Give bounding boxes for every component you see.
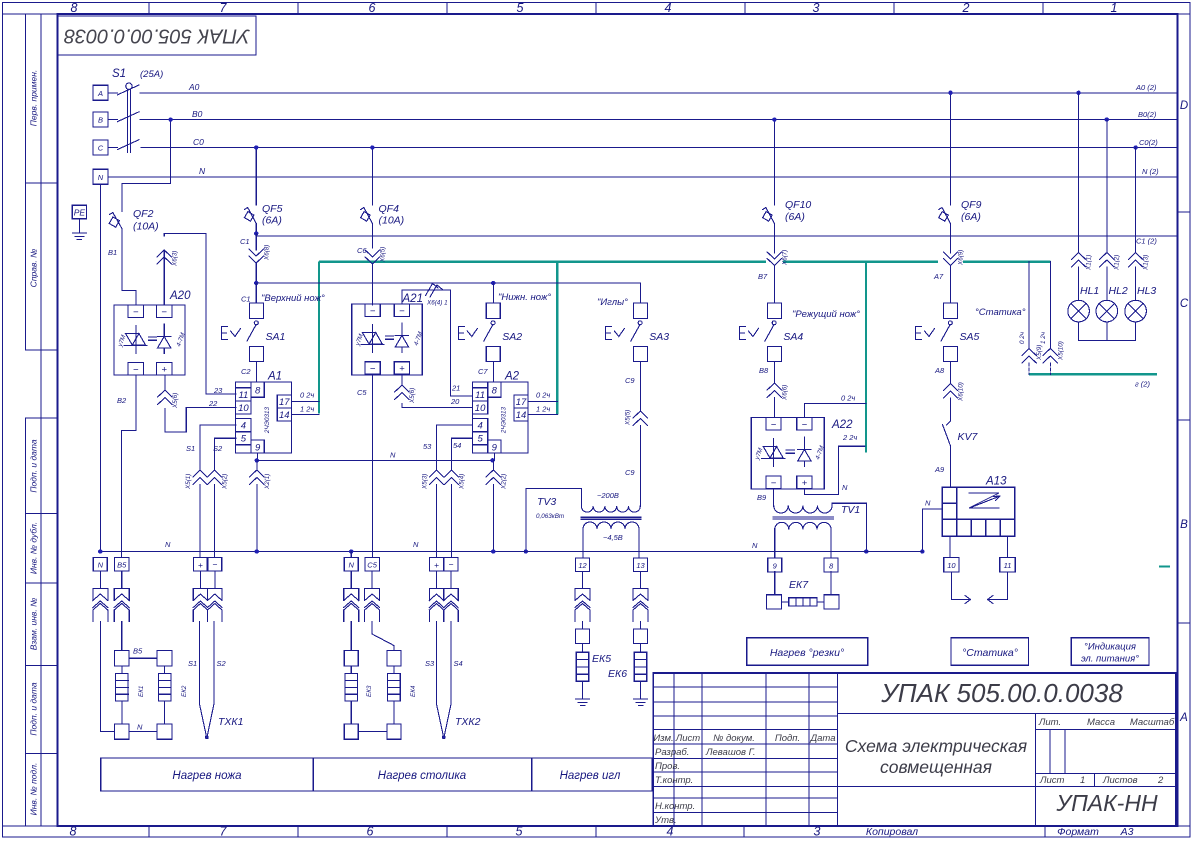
svg-text:Разраб.: Разраб. — [655, 747, 689, 758]
svg-text:А0: А0 — [188, 82, 200, 92]
node C1 junction — [254, 231, 258, 235]
svg-text:№ докум.: № докум. — [713, 733, 755, 744]
svg-text:В0: В0 — [192, 109, 203, 119]
svg-text:совмещенная: совмещенная — [880, 757, 992, 777]
svg-text:Взам. инв. №: Взам. инв. № — [29, 598, 39, 651]
svg-text:Т.контр.: Т.контр. — [655, 775, 693, 786]
svg-text:Х6(9): Х6(9) — [958, 250, 965, 266]
svg-text:+: + — [802, 478, 808, 489]
svg-text:Изм.: Изм. — [653, 733, 673, 744]
wire A1 pin14 to teal — [291, 414, 319, 416]
box minus TXK2 — [444, 558, 458, 572]
connector X5(2) — [207, 470, 221, 558]
svg-text:УПАК 505.00.0.0038: УПАК 505.00.0.0038 — [880, 678, 1123, 708]
wire A13 to box 10 — [949, 536, 951, 557]
lamp HL3 — [1125, 300, 1147, 340]
svg-text:Лист: Лист — [675, 733, 701, 744]
svg-text:С9: С9 — [625, 376, 635, 385]
svg-text:A: A — [1179, 712, 1188, 724]
svg-text:1 2ч: 1 2ч — [300, 405, 314, 414]
svg-text:QF5: QF5 — [262, 203, 283, 215]
svg-text:Х5(6): Х5(6) — [172, 393, 179, 409]
wire 22ч A22 plus to teal — [804, 446, 865, 494]
svg-text:РЕ: РЕ — [74, 207, 86, 217]
svg-text:17: 17 — [516, 397, 527, 408]
wire N terminal to bottom rail — [99, 184, 101, 551]
connector X6(10) — [943, 384, 957, 422]
connector X5(5) — [633, 411, 647, 506]
svg-text:В0(2): В0(2) — [1138, 110, 1157, 119]
svg-text:−: − — [771, 478, 777, 489]
svg-text:А7: А7 — [933, 272, 944, 281]
teal drop Режущий нож — [865, 262, 867, 453]
wire 02ч A22 to teal — [804, 404, 866, 418]
top ruler ticks — [149, 3, 1043, 15]
teal drop Нижн нож — [556, 262, 558, 415]
svg-text:Копировал: Копировал — [866, 826, 918, 838]
bottom column numbers — [70, 825, 821, 839]
svg-text:4: 4 — [241, 421, 246, 432]
svg-text:Утв.: Утв. — [654, 815, 677, 826]
N rail — [100, 551, 922, 553]
teal drop Верхний нож — [318, 262, 320, 414]
probe arrows under A13 — [951, 572, 1007, 604]
svg-text:3: 3 — [813, 1, 820, 15]
svg-text:ТХК2: ТХК2 — [455, 716, 481, 728]
svg-text:Инв. № дубл.: Инв. № дубл. — [29, 522, 39, 574]
wire B9 A22 to TV1 — [773, 489, 775, 506]
wire A1 pin9 to N link — [257, 453, 259, 460]
svg-text:А: А — [97, 89, 103, 98]
box minus TXK1 — [208, 558, 222, 572]
wire A13 to box 11 — [1006, 536, 1008, 557]
lamp drop HL3 — [1135, 148, 1137, 254]
left stamp rotated labels — [29, 70, 39, 816]
svg-text:−: − — [133, 307, 139, 318]
svg-text:Перв. примен.: Перв. примен. — [29, 70, 39, 127]
svg-text:11: 11 — [238, 390, 248, 401]
svg-text:эл. питания°: эл. питания° — [1081, 654, 1139, 665]
svg-text:С5: С5 — [367, 561, 377, 570]
svg-text:А1: А1 — [267, 371, 282, 383]
svg-text:Х5(10): Х5(10) — [1057, 341, 1064, 361]
connector X2(1) — [250, 460, 264, 551]
svg-text:1: 1 — [1080, 775, 1085, 786]
svg-text:5: 5 — [241, 434, 247, 445]
svg-text:УПАК-НН: УПАК-НН — [1055, 790, 1158, 816]
connector S4 column — [450, 571, 452, 589]
caption box: Нагрев игл — [532, 758, 652, 791]
box С5 — [365, 558, 380, 572]
svg-text:С0: С0 — [193, 137, 204, 147]
svg-text:4: 4 — [477, 421, 482, 432]
wire B0 to QF2 — [122, 120, 171, 212]
svg-text:−: − — [212, 560, 217, 570]
svg-text:В8: В8 — [759, 366, 769, 375]
wire 23 bridge A20 to A1 pin11 — [164, 233, 236, 394]
svg-text:(10А): (10А) — [133, 221, 159, 233]
svg-text:~200В: ~200В — [597, 491, 619, 500]
terminal box A — [93, 85, 108, 100]
svg-text:С9: С9 — [625, 468, 635, 477]
svg-text:Масштаб: Масштаб — [1130, 717, 1175, 728]
svg-text:Формат: Формат — [1057, 826, 1099, 838]
svg-text:5: 5 — [517, 1, 524, 15]
connector S2 column — [214, 571, 216, 589]
svg-text:N: N — [199, 166, 206, 176]
svg-text:QF9: QF9 — [961, 199, 982, 211]
breaker QF9 — [939, 208, 951, 254]
wire A21 plus to A2 pin10 — [402, 374, 473, 407]
svg-text:В5: В5 — [133, 647, 143, 656]
svg-text:Нагрев столика: Нагрев столика — [378, 770, 466, 782]
svg-text:22: 22 — [208, 399, 218, 408]
svg-text:S2: S2 — [217, 659, 227, 668]
top-left inverted stamp box — [58, 16, 256, 55]
svg-text:С7: С7 — [478, 367, 488, 376]
svg-text:0 2ч: 0 2ч — [841, 394, 855, 403]
svg-text:°Статика°: °Статика° — [962, 647, 1018, 659]
thyristor module A22 — [751, 418, 824, 489]
left stamp bands — [26, 14, 58, 826]
teal main horizontal — [319, 261, 766, 263]
connector pair symbols below terminal boxes — [93, 571, 648, 732]
wire A2 pin17 to teal — [528, 400, 557, 402]
svg-text:Х6(6): Х6(6) — [782, 385, 789, 401]
connector В5 column — [121, 571, 123, 589]
svg-text:ТХК1: ТХК1 — [218, 716, 243, 728]
svg-text:−: − — [771, 419, 777, 430]
svg-text:S1: S1 — [186, 444, 195, 453]
bus B0 — [140, 119, 1176, 121]
svg-text:С0(2): С0(2) — [1139, 138, 1158, 147]
IC A2 — [472, 382, 528, 453]
N link between A1 and A2 — [257, 459, 493, 461]
svg-text:B: B — [1180, 519, 1188, 531]
bottom terminal boxes row — [93, 558, 838, 573]
wire C1 to right margin — [256, 235, 1176, 237]
svg-text:Х1(1): Х1(1) — [1086, 255, 1093, 271]
svg-text:53: 53 — [423, 442, 432, 451]
svg-text:−: − — [133, 364, 139, 375]
svg-text:°Статика°: °Статика° — [975, 307, 1026, 318]
svg-text:ЕК4: ЕК4 — [410, 685, 417, 697]
svg-text:ЕК2: ЕК2 — [181, 685, 188, 697]
box plus TXK2 — [430, 558, 444, 572]
box 13 — [634, 558, 648, 572]
terminal box C — [93, 140, 108, 155]
svg-text:8: 8 — [492, 385, 498, 396]
svg-text:А21: А21 — [402, 293, 423, 305]
svg-text:"Нижн. нож°: "Нижн. нож° — [498, 292, 551, 303]
svg-text:С1: С1 — [241, 295, 251, 304]
box 12 — [576, 558, 590, 572]
wire S1 from A1 pin4 — [200, 425, 236, 470]
svg-text:10: 10 — [475, 403, 486, 414]
connector 13 column — [640, 572, 642, 589]
svg-text:ТV1: ТV1 — [841, 504, 860, 516]
connector X6(3) — [157, 250, 171, 305]
connector X2(2) — [486, 460, 500, 551]
caption box: Нагрев ножа — [101, 758, 314, 791]
svg-text:г (2): г (2) — [1135, 380, 1150, 389]
lamp HL2 — [1096, 300, 1118, 340]
svg-text:−: − — [161, 307, 167, 318]
title block — [653, 673, 1176, 826]
svg-text:Х5(3): Х5(3) — [422, 474, 429, 490]
svg-text:Х1(3): Х1(3) — [1143, 255, 1150, 271]
svg-text:S3: S3 — [425, 659, 435, 668]
svg-text:(6А): (6А) — [785, 211, 805, 223]
svg-text:Х6(7): Х6(7) — [782, 250, 789, 266]
svg-text:0 2ч: 0 2ч — [300, 391, 314, 400]
connector X6(9) on QF9 drop — [943, 252, 957, 303]
wire S2 from A1 pin5 — [215, 438, 236, 470]
svg-text:8: 8 — [71, 1, 78, 15]
svg-text:ЕК3: ЕК3 — [366, 685, 373, 697]
svg-text:Лит.: Лит. — [1038, 717, 1061, 728]
svg-text:N: N — [348, 561, 354, 570]
svg-text:SA1: SA1 — [266, 331, 286, 343]
terminal box B — [93, 112, 108, 127]
svg-text:+: + — [161, 364, 167, 375]
svg-text:"Режущий нож°: "Режущий нож° — [792, 309, 860, 320]
svg-text:N (2): N (2) — [1142, 167, 1159, 176]
svg-text:Подп.: Подп. — [775, 733, 800, 744]
svg-text:(10А): (10А) — [379, 215, 405, 227]
box plus TXK1 — [194, 558, 208, 572]
svg-text:Х5(9): Х5(9) — [1036, 345, 1043, 361]
thyristor module A20 — [114, 305, 185, 375]
svg-text:11: 11 — [475, 390, 485, 401]
connector N столик column — [350, 571, 352, 589]
wire A2 pin9 to N link — [493, 453, 495, 460]
svg-text:N: N — [137, 723, 143, 732]
wire B2 A20 to box В5 — [121, 375, 135, 558]
wire A0 to QF9 — [950, 93, 952, 205]
svg-text:D: D — [1180, 100, 1188, 112]
connector С5 column — [371, 571, 373, 589]
svg-text:С1 (2): С1 (2) — [1136, 237, 1157, 246]
svg-text:А3: А3 — [1120, 826, 1134, 838]
wire C0 to QF4 — [371, 148, 373, 206]
wire C0 to QF5 — [255, 148, 257, 206]
box 10 — [944, 558, 959, 573]
svg-text:ЕК6: ЕК6 — [608, 668, 627, 680]
svg-text:В1: В1 — [108, 248, 117, 257]
svg-text:С: С — [98, 144, 104, 153]
connector X6(8) on QF5 drop — [249, 234, 263, 284]
svg-text:−: − — [802, 419, 808, 430]
connector X5(3) — [429, 470, 443, 558]
lamp drop HL1 — [1078, 93, 1080, 253]
svg-text:Пров.: Пров. — [655, 761, 680, 772]
svg-text:А20: А20 — [169, 290, 191, 302]
svg-text:6: 6 — [367, 825, 374, 839]
svg-text:А0 (2): А0 (2) — [1135, 83, 1157, 92]
svg-text:N: N — [752, 541, 758, 550]
connector X6(5) on QF4 drop — [365, 250, 379, 305]
connector S3 column — [436, 571, 438, 589]
svg-text:1: 1 — [1111, 1, 1118, 15]
heater EK6 — [634, 629, 648, 706]
svg-text:SA3: SA3 — [649, 331, 669, 343]
lamp common tie — [1079, 339, 1136, 341]
svg-text:+: + — [399, 364, 405, 375]
connector X6(6) — [767, 383, 781, 418]
svg-text:С5: С5 — [357, 388, 367, 397]
box 8 — [824, 558, 838, 572]
connector X5(6) on A20 plus — [158, 390, 172, 405]
svg-text:Х6(5): Х6(5) — [380, 247, 387, 263]
bottom ruler ticks — [149, 826, 1045, 837]
svg-text:2ЧЭ0313: 2ЧЭ0313 — [501, 406, 508, 434]
svg-text:S2: S2 — [213, 444, 223, 453]
wire C5 A21 to box С5 — [372, 374, 374, 557]
wire A2 pin14 to teal — [528, 414, 557, 416]
svg-text:0,063кВт: 0,063кВт — [536, 513, 564, 520]
teal dash mark right margin — [1159, 565, 1170, 567]
svg-text:S1: S1 — [188, 659, 197, 668]
connector X1(3) — [1128, 253, 1142, 301]
svg-text:А2: А2 — [504, 371, 520, 383]
box N (столик) — [344, 558, 358, 572]
box 11 — [1000, 558, 1015, 573]
svg-text:9: 9 — [255, 443, 261, 454]
svg-text:5: 5 — [516, 825, 523, 839]
svg-text:А22: А22 — [831, 419, 853, 431]
wire N rail to A13 — [922, 509, 942, 552]
wire rail to столик N box — [350, 552, 352, 558]
node QF5 branch — [254, 281, 258, 285]
svg-text:QF10: QF10 — [785, 199, 811, 211]
connector 12 column — [582, 572, 584, 589]
svg-text:N: N — [413, 540, 419, 549]
svg-text:21: 21 — [451, 384, 460, 393]
wire to SA1 — [255, 283, 257, 303]
switch S1 — [108, 83, 139, 153]
svg-text:"Иглы°: "Иглы° — [597, 297, 628, 308]
wire knife feeder (C1 branch to SA1,SA2,SA3) — [256, 283, 640, 303]
bus A0 — [140, 92, 1176, 94]
svg-text:SA2: SA2 — [502, 331, 522, 343]
thyristor module A21 — [352, 304, 423, 375]
right zone ticks — [1177, 212, 1190, 623]
svg-text:Инв. № подл.: Инв. № подл. — [29, 763, 39, 816]
svg-text:В2: В2 — [117, 396, 127, 405]
wire A1 pin17 to teal — [291, 400, 319, 402]
svg-text:(25А): (25А) — [140, 69, 163, 80]
svg-text:Х6(3): Х6(3) — [172, 251, 179, 267]
teal line г(2) — [1029, 373, 1157, 375]
wire B0 to QF10 — [773, 120, 775, 205]
svg-text:Схема электрическая: Схема электрическая — [845, 736, 1027, 756]
caption box: Нагрев резки — [747, 638, 868, 665]
top column numbers — [71, 1, 1118, 15]
wire 02ч to г(2) — [1022, 262, 1036, 375]
svg-text:Х2(1): Х2(1) — [264, 474, 271, 490]
svg-text:(6А): (6А) — [262, 215, 282, 227]
svg-text:2: 2 — [1157, 775, 1164, 786]
svg-text:23: 23 — [213, 386, 223, 395]
svg-text:HL1: HL1 — [1080, 285, 1099, 297]
svg-text:11: 11 — [1004, 561, 1012, 570]
svg-text:N: N — [925, 499, 931, 508]
svg-text:Масса: Масса — [1087, 717, 1115, 728]
svg-text:8: 8 — [255, 385, 261, 396]
svg-text:12: 12 — [578, 561, 587, 570]
svg-text:Нагрев игл: Нагрев игл — [560, 770, 621, 782]
svg-text:В9: В9 — [757, 493, 767, 502]
svg-text:Подп. и дата: Подп. и дата — [29, 439, 39, 492]
svg-text:Х6(10): Х6(10) — [958, 382, 965, 402]
svg-text:Х5(1): Х5(1) — [185, 474, 192, 490]
svg-text:10: 10 — [947, 561, 956, 570]
PE terminal — [72, 205, 86, 219]
svg-text:1 2ч: 1 2ч — [536, 405, 550, 414]
breaker QF5 — [244, 208, 256, 234]
svg-text:10: 10 — [238, 403, 249, 414]
svg-text:Х1(2): Х1(2) — [1114, 255, 1121, 271]
caption box: Статика — [951, 638, 1029, 665]
svg-text:УПАК 505.00.0.0038: УПАК 505.00.0.0038 — [64, 25, 251, 47]
svg-text:Х5(5): Х5(5) — [625, 410, 632, 426]
svg-text:N: N — [98, 173, 104, 182]
svg-text:А8: А8 — [934, 366, 945, 375]
svg-text:Х2(2): Х2(2) — [501, 474, 508, 490]
svg-text:В5: В5 — [117, 561, 127, 570]
caption box: Индикация эл. питания — [1071, 638, 1149, 665]
svg-text:Справ. №: Справ. № — [29, 249, 39, 288]
connector X5(6) on A21 plus — [395, 385, 409, 400]
svg-text:S1: S1 — [112, 68, 126, 80]
svg-text:Листов: Листов — [1102, 775, 1138, 786]
svg-text:−: − — [370, 364, 376, 375]
svg-text:C: C — [1180, 298, 1189, 310]
svg-text:В: В — [98, 116, 103, 125]
connector S1 column — [199, 571, 201, 589]
svg-text:"Верхний нож°: "Верхний нож° — [261, 293, 325, 304]
svg-text:N: N — [390, 451, 396, 460]
thermocouple TXK2 — [437, 622, 452, 739]
svg-text:SA4: SA4 — [783, 331, 803, 343]
svg-text:+: + — [434, 560, 439, 570]
svg-text:2: 2 — [962, 1, 970, 15]
svg-text:ЕК7: ЕК7 — [789, 579, 809, 591]
svg-text:SA5: SA5 — [960, 331, 980, 343]
svg-text:Подп. и дата: Подп. и дата — [29, 682, 39, 735]
svg-text:+: + — [198, 560, 203, 570]
svg-text:Х6(4) 1: Х6(4) 1 — [426, 300, 448, 307]
heater EK4 — [358, 651, 401, 740]
svg-text:Х5(4): Х5(4) — [459, 474, 466, 490]
terminal box N — [93, 169, 108, 184]
box В5 — [114, 558, 128, 572]
svg-text:KV7: KV7 — [958, 431, 979, 443]
svg-text:2 2ч: 2 2ч — [842, 433, 857, 442]
connector X5(1) — [193, 470, 207, 558]
svg-text:−: − — [370, 306, 376, 317]
svg-text:5: 5 — [477, 434, 483, 445]
svg-text:S4: S4 — [454, 659, 463, 668]
svg-text:Х6(8): Х6(8) — [264, 245, 271, 261]
svg-text:А9: А9 — [934, 465, 945, 474]
svg-text:8: 8 — [70, 825, 77, 839]
svg-text:Нагрев °резки°: Нагрев °резки° — [770, 647, 844, 659]
svg-text:Левашов Г.: Левашов Г. — [705, 747, 755, 758]
svg-text:Х5(2): Х5(2) — [222, 474, 229, 490]
svg-text:1 2ч: 1 2ч — [1040, 331, 1047, 344]
